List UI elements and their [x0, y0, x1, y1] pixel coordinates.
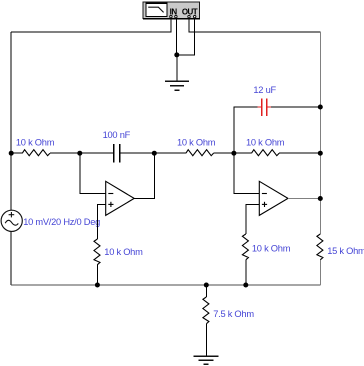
wire IN+ pin to top-left rail — [11, 18, 171, 32]
ground (bottom) — [193, 356, 218, 364]
label 100 nF — [103, 130, 131, 140]
wire op1 non-inverting input down — [97, 204, 105, 239]
wire OUT- pin down and left to ground node — [177, 18, 195, 55]
node input (left rail / R row) — [9, 151, 14, 156]
wire node A down to op1 inverting input — [80, 153, 106, 193]
capacitor 12uF (red) — [258, 98, 321, 116]
wire op2 non-inverting input down — [246, 204, 259, 234]
op-amp U1 — [106, 181, 135, 215]
wire node C up to cap row — [234, 107, 258, 153]
node C (op2 inverting node) — [231, 151, 236, 156]
label 10 k Ohm (below op1) — [104, 247, 143, 257]
resistor 10k (node B to node C, horizontal) — [154, 150, 234, 156]
resistor 10k (below op2, vertical) — [242, 234, 248, 285]
resistor 10k (below op1, vertical) — [94, 239, 100, 285]
wire node C down to op2 inverting input — [234, 153, 259, 193]
node ground junction — [174, 52, 179, 57]
svg-text:10 k Ohm: 10 k Ohm — [252, 243, 291, 253]
svg-text:10 k Ohm: 10 k Ohm — [177, 138, 216, 148]
node op2 output / right rail — [318, 196, 323, 201]
label 10 k Ohm (node B to C) — [177, 138, 216, 148]
svg-text:15 k Ohm: 15 k Ohm — [327, 246, 364, 256]
resistor 7.5k (vertical) — [203, 285, 209, 355]
label 10 k Ohm (below op2) — [252, 243, 291, 253]
label 12 uF — [253, 85, 276, 95]
resistor 10k (node C to right rail, horizontal) — [234, 150, 320, 156]
wire bottom rail — [11, 284, 320, 286]
label 7.5 k Ohm — [213, 309, 254, 319]
wire right rail upper part — [319, 32, 321, 234]
label 10 mV/20 Hz/0 Deg — [23, 217, 100, 227]
wire left rail down to source — [10, 32, 12, 211]
bode plotter XBP1 — [143, 2, 200, 19]
capacitor 100nF — [80, 144, 155, 162]
wire ground node down — [176, 55, 178, 81]
wire op1 output up to node B — [134, 153, 154, 198]
node cap row / right rail — [318, 105, 323, 110]
node below op2 / bottom rail — [243, 283, 248, 288]
label 15 k Ohm — [327, 246, 364, 256]
resistor 15k (vertical, right rail) — [317, 234, 323, 285]
node A (op1 inverting node) — [77, 151, 82, 156]
wire op2 output to right rail — [288, 198, 320, 200]
svg-text:10 k Ohm: 10 k Ohm — [104, 247, 143, 257]
source V1 10mV/20Hz — [1, 210, 22, 231]
svg-text:7.5 k Ohm: 7.5 k Ohm — [213, 309, 254, 319]
ground (top) — [165, 81, 189, 90]
wire OUT+ pin to top-right rail — [189, 18, 320, 32]
op-amp U2 — [259, 181, 288, 215]
label 10 k Ohm (input R) — [16, 138, 55, 148]
svg-text:12 uF: 12 uF — [253, 85, 276, 95]
wire IN- pin down — [176, 18, 178, 55]
resistor R 10k (input, horizontal) — [11, 150, 80, 156]
node R row / right rail — [318, 151, 323, 156]
node 7.5k branch / bottom rail — [204, 283, 209, 288]
node B (op1 output node) — [152, 151, 157, 156]
wire source bottom to bottom-left corner — [10, 231, 12, 285]
node bottom-left junction — [95, 283, 100, 288]
svg-text:10 mV/20 Hz/0 Deg: 10 mV/20 Hz/0 Deg — [23, 217, 100, 227]
svg-text:10 k Ohm: 10 k Ohm — [246, 138, 285, 148]
svg-text:100 nF: 100 nF — [103, 130, 131, 140]
svg-text:10 k Ohm: 10 k Ohm — [16, 138, 55, 148]
label 10 k Ohm (node C to rail) — [246, 138, 285, 148]
